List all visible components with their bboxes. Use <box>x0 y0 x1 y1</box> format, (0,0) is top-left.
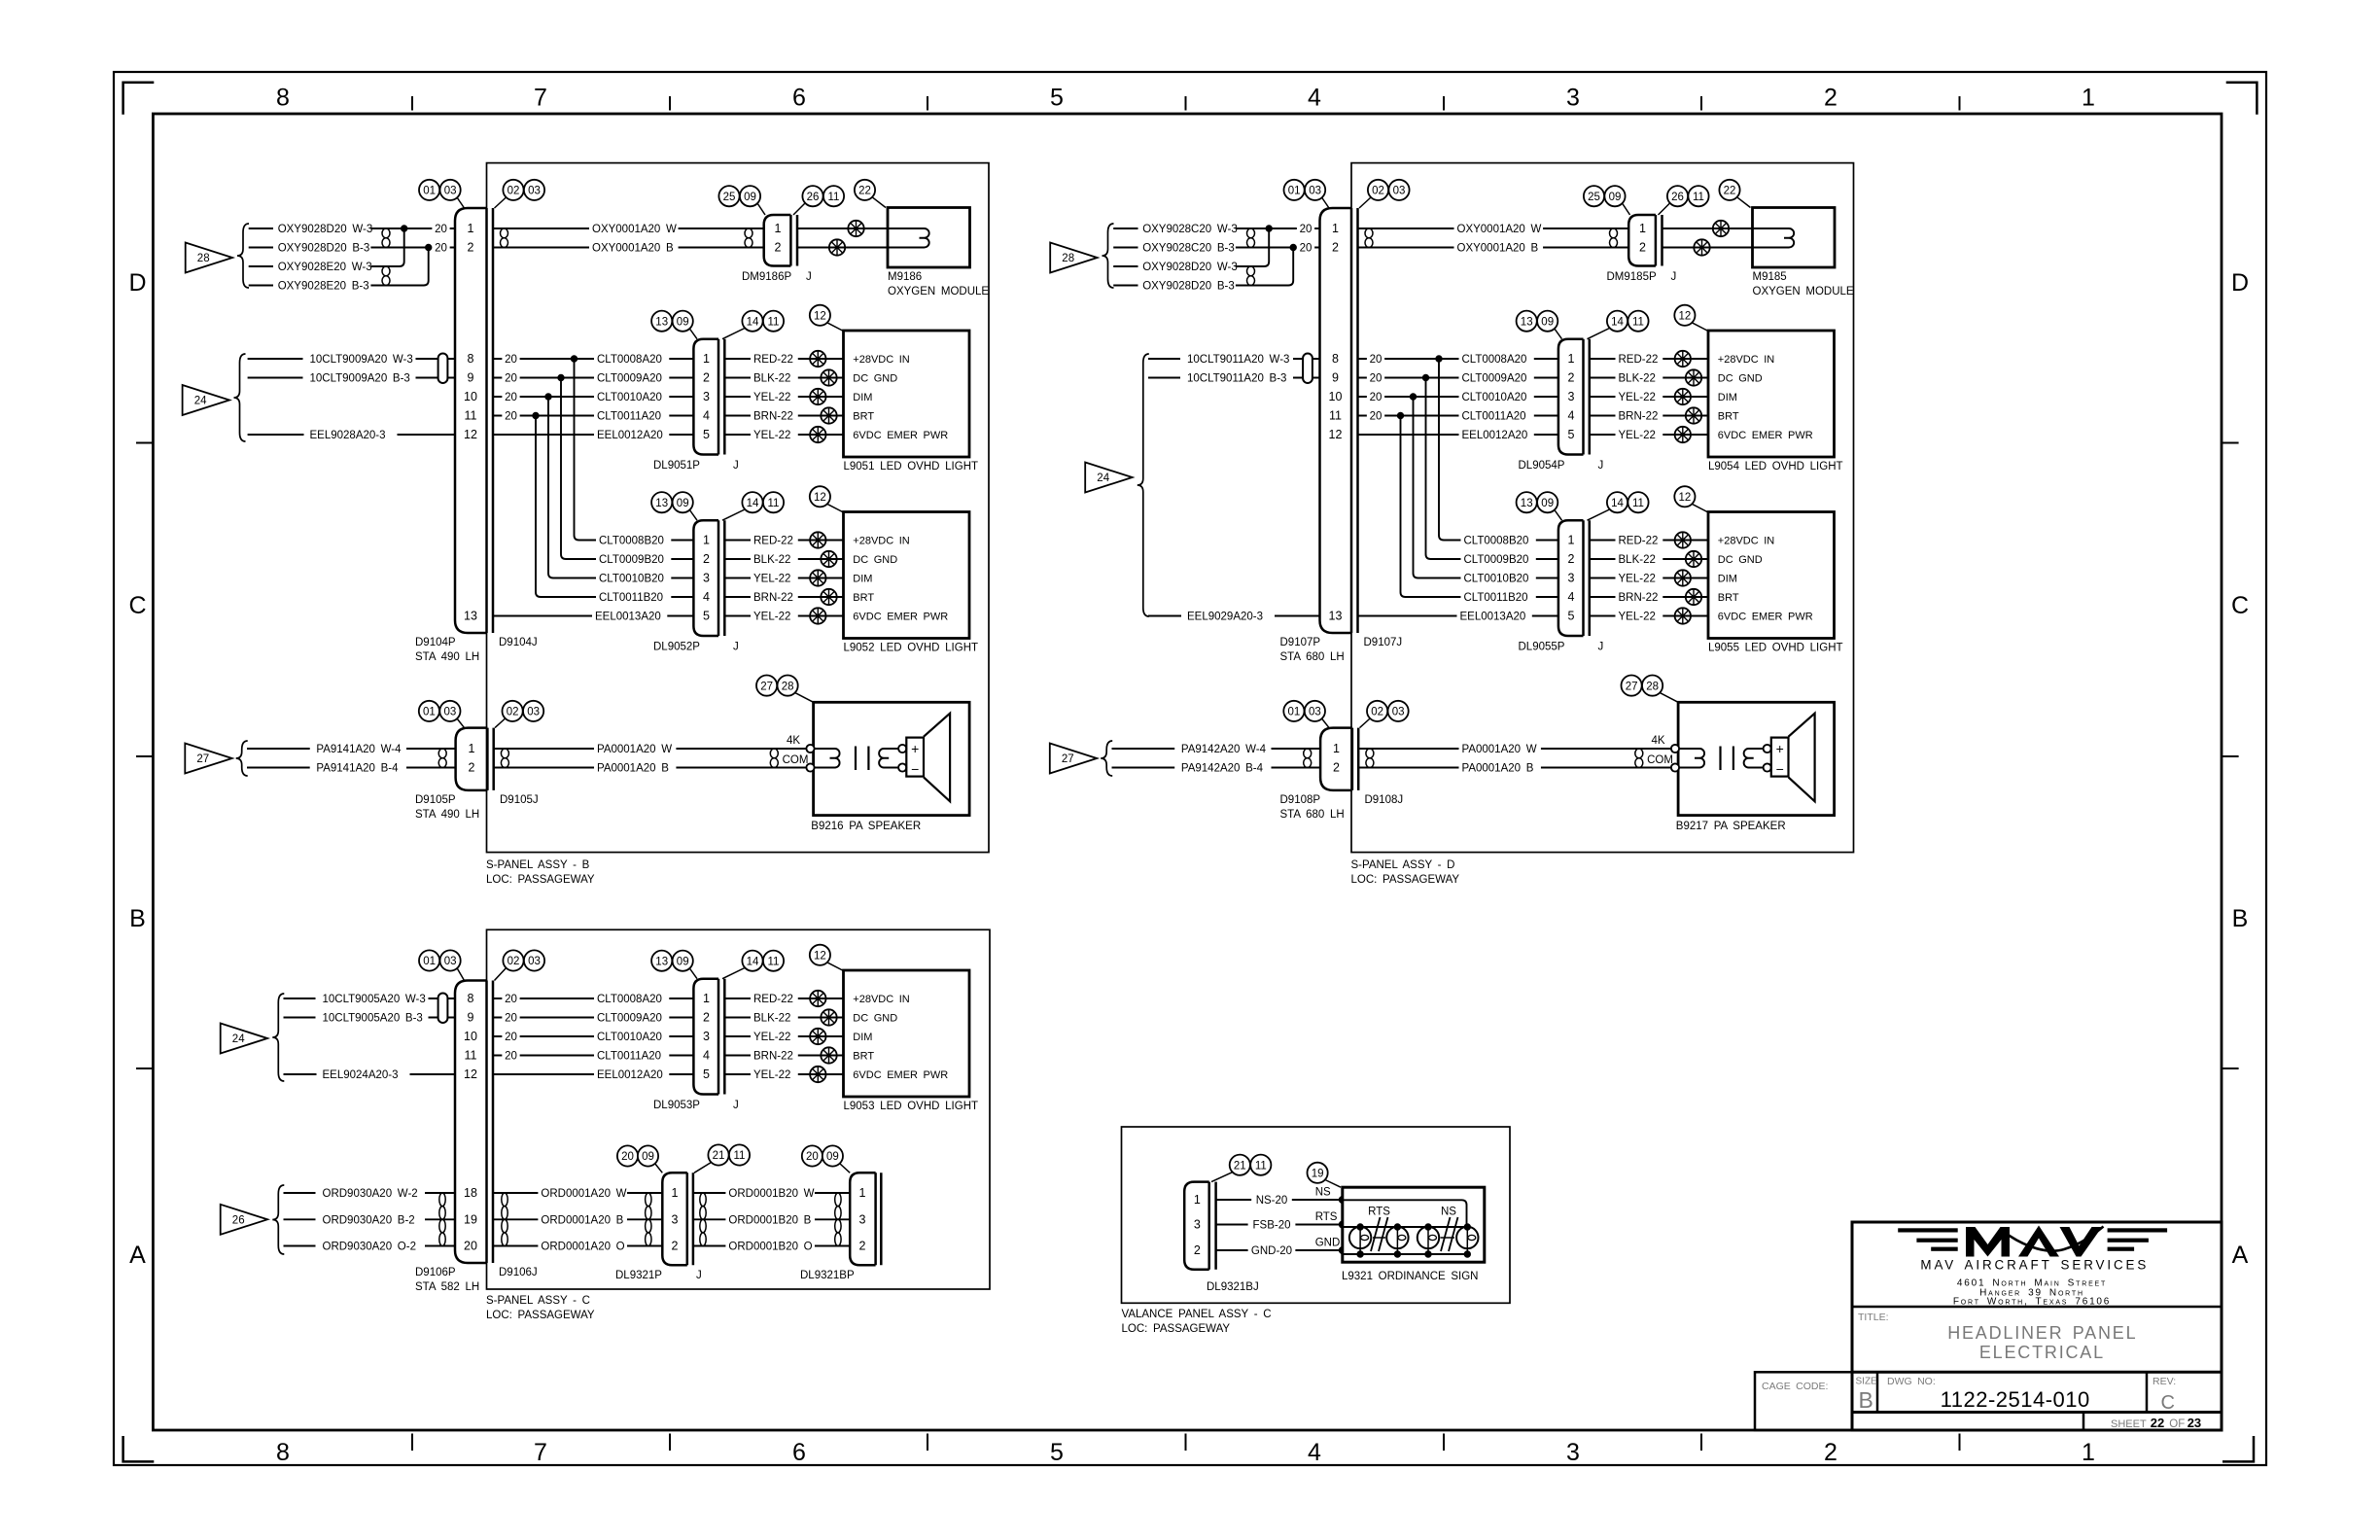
leader 12 to L9055 <box>1692 504 1708 512</box>
svg-text:D9108J: D9108J <box>1365 794 1404 806</box>
svg-text:+28VDC IN: +28VDC IN <box>853 994 909 1005</box>
svg-text:STA 582 LH: STA 582 LH <box>415 1281 479 1293</box>
svg-text:09: 09 <box>677 498 689 509</box>
svg-text:BRN-22: BRN-22 <box>1619 592 1659 604</box>
svg-text:Fort Worth, Texas 76106: Fort Worth, Texas 76106 <box>1953 1297 2111 1308</box>
connector D9105P / D9105J <box>456 728 488 790</box>
svg-text:2: 2 <box>672 1240 679 1253</box>
balloon 28 (B9216) <box>778 676 798 696</box>
lamp on BLK-22 row 2 (L9053) <box>821 1009 836 1025</box>
svg-text:VALANCE PANEL ASSY - C: VALANCE PANEL ASSY - C <box>1122 1309 1272 1320</box>
svg-text:20: 20 <box>505 994 517 1005</box>
wire YEL-22 pin 3 DL9055P to L9055 <box>1590 577 1708 579</box>
svg-text:20: 20 <box>435 243 447 255</box>
svg-text:11: 11 <box>768 316 780 328</box>
balloon 21 (DL9321BJ) <box>1230 1155 1250 1175</box>
balloon 25 (DM9185P) <box>1584 186 1604 206</box>
svg-text:5: 5 <box>1050 1439 1064 1466</box>
zone tick top 8/7 <box>411 96 413 111</box>
leader 14/11 to J of DL9055P <box>1588 509 1610 520</box>
lamp on BLK-22 row 2 (L9052) <box>821 551 836 567</box>
lamp on YEL-22 row 3 (L9053) <box>810 1029 825 1044</box>
svg-text:J: J <box>733 1100 739 1111</box>
leader 27/28 to B9216 <box>795 692 814 702</box>
svg-text:14: 14 <box>1611 498 1624 509</box>
svg-text:1: 1 <box>703 992 710 1005</box>
svg-text:ORD9030A20 B-2: ORD9030A20 B-2 <box>323 1214 415 1226</box>
svg-text:2: 2 <box>1568 552 1575 566</box>
svg-text:03: 03 <box>444 956 457 967</box>
wire ORD9030A20 W-2 <box>284 1192 316 1194</box>
svg-text:2: 2 <box>468 241 474 255</box>
leader 02/03 to D9105J <box>495 718 506 728</box>
svg-text:6VDC EMER PWR: 6VDC EMER PWR <box>1718 430 1813 441</box>
leader 13/09 to DL9055P <box>1555 509 1562 520</box>
brace flag 24 (D9104P) <box>234 354 246 441</box>
speaker horn (B9216) <box>924 714 950 802</box>
wire YEL-22 pin 5 DL9053P to L9053 <box>724 1073 843 1075</box>
balloon 01 (D9104P) <box>419 180 439 200</box>
valance panel box VALANCE PANEL ASSY - C <box>1122 1127 1511 1303</box>
junction node pin1 (D9104P) <box>402 226 407 231</box>
balloon 01 (D9105P) <box>419 701 439 721</box>
svg-text:1: 1 <box>1568 534 1575 547</box>
svg-text:+: + <box>1776 741 1784 756</box>
wire OXY9028C20 W-3 <box>1113 227 1137 229</box>
zone tick top 6/5 <box>927 96 928 111</box>
leader 25/09 to DM9186P <box>757 203 765 215</box>
svg-text:COM: COM <box>783 754 809 766</box>
speaker + terminal (B9217) <box>1764 745 1771 752</box>
balloon 22 (M9186) <box>855 180 875 200</box>
wire BLK-22 pin 2 DL9051P to L9051 <box>724 377 843 379</box>
wire OXY9028D20 W-3 <box>249 227 273 229</box>
lamp on YEL-22 row 5 (L9054) <box>1675 427 1691 442</box>
balloon 12 (L9051) <box>810 305 830 326</box>
lamp on BRN-22 row 4 (L9051) <box>821 407 836 423</box>
wire PA0001A20 W <box>1358 748 1678 750</box>
balloon 19 (L9321) <box>1308 1163 1328 1183</box>
svg-text:12: 12 <box>1329 428 1343 441</box>
corner trim mark bottom-right <box>2222 1436 2254 1461</box>
connector DM9185P <box>1628 215 1656 266</box>
svg-text:03: 03 <box>527 707 540 718</box>
wire RTS bus inside L9321 <box>1343 1226 1468 1228</box>
wire OXY9028D20 W-3 riser to pin 1 <box>1236 228 1269 266</box>
svg-text:RTS: RTS <box>1368 1207 1390 1218</box>
svg-text:YEL-22: YEL-22 <box>1619 430 1656 441</box>
svg-text:DIM: DIM <box>853 1032 872 1043</box>
svg-text:B: B <box>1859 1387 1873 1413</box>
svg-text:1: 1 <box>1568 352 1575 366</box>
svg-text:PA0001A20 W: PA0001A20 W <box>1462 744 1537 755</box>
leader 13/09 to DL9051P <box>689 329 697 339</box>
svg-text:B: B <box>129 905 146 932</box>
leader 26/11 to J of DM9185P <box>1659 203 1670 215</box>
wire PA9142A20 W-4 <box>1112 748 1175 750</box>
label COM (B9216) <box>783 752 807 766</box>
svg-text:OF: OF <box>2169 1418 2185 1430</box>
speaker input terminal + (B9217) <box>1671 745 1679 752</box>
balloon 12 (L9053) <box>810 945 830 965</box>
svg-text:09: 09 <box>826 1151 839 1163</box>
svg-text:OXYGEN MODULE: OXYGEN MODULE <box>1753 286 1854 297</box>
svg-text:1: 1 <box>1333 742 1340 755</box>
svg-text:2: 2 <box>703 371 710 385</box>
svg-text:BRT: BRT <box>853 1051 874 1063</box>
svg-text:11: 11 <box>1255 1160 1267 1172</box>
oxygen module box M9185 <box>1753 208 1836 268</box>
svg-text:6VDC EMER PWR: 6VDC EMER PWR <box>853 1069 948 1081</box>
svg-text:RED-22: RED-22 <box>1619 536 1659 547</box>
svg-text:A: A <box>2232 1242 2249 1269</box>
svg-text:26: 26 <box>1671 192 1684 203</box>
zone tick top 7/6 <box>669 96 671 111</box>
svg-text:11: 11 <box>465 1049 477 1063</box>
svg-text:BRN-22: BRN-22 <box>1619 411 1659 423</box>
svg-text:STA 680 LH: STA 680 LH <box>1280 651 1345 663</box>
junction node bottom lamp 2 <box>1394 1251 1400 1257</box>
svg-text:DC GND: DC GND <box>1718 554 1763 566</box>
balloon 01 (D9106P) <box>419 950 439 970</box>
svg-text:LOC: PASSAGEWAY: LOC: PASSAGEWAY <box>1351 874 1460 886</box>
wire gauge 20 pin 2 <box>432 240 449 254</box>
svg-text:20: 20 <box>1300 224 1312 235</box>
twisted triple symbol ORD0001A20 at DL9321P <box>646 1193 651 1207</box>
svg-text:8: 8 <box>468 352 474 366</box>
svg-text:DC GND: DC GND <box>853 1013 897 1025</box>
balloon 09 (DM9185P) <box>1604 186 1625 206</box>
lamp pair link NS <box>1441 1237 1455 1239</box>
svg-text:BLK-22: BLK-22 <box>753 554 790 566</box>
MAV logo speed lines right <box>2108 1228 2168 1232</box>
balloon 02 (D9107J) <box>1368 180 1388 200</box>
wire CLT0011A20 (D9104P J to DL) <box>493 415 693 417</box>
svg-text:EEL0012A20: EEL0012A20 <box>597 1069 663 1081</box>
svg-text:09: 09 <box>1541 498 1554 509</box>
leader 14/11 to J of DL9054P <box>1588 329 1610 339</box>
leader 12 to L9054 <box>1692 323 1708 332</box>
transformer primary coil (B9217) <box>1679 749 1704 768</box>
connector DL9051P (to L9051) <box>693 339 718 455</box>
zone tick right B/A <box>2222 1067 2239 1069</box>
leader 13/09 to DL9053P <box>689 968 697 979</box>
wire YEL-22 pin 3 DL9051P to L9051 <box>724 396 843 398</box>
wire gauge 20 pin 1 <box>1297 222 1314 235</box>
svg-text:DM9185P: DM9185P <box>1607 271 1657 283</box>
svg-text:D9107J: D9107J <box>1364 637 1403 648</box>
brace oxygen wires (D9107P) <box>1102 224 1114 288</box>
transformer primary coil (B9216) <box>815 749 840 768</box>
MAV logo letter M <box>1966 1227 2010 1257</box>
balloon 09 (L9053) <box>673 951 693 971</box>
wire DM9186P pin1 to M9186 <box>797 227 888 229</box>
wire OXY9028D20 B-3 <box>1113 285 1137 287</box>
transformer core (B9216) <box>855 747 857 771</box>
svg-text:EEL0012A20: EEL0012A20 <box>597 430 663 441</box>
svg-text:CAGE CODE:: CAGE CODE: <box>1762 1381 1828 1392</box>
wire PA0001A20 B <box>1358 767 1678 769</box>
wire EEL0012A20 (D9107P J to DL) <box>1358 434 1558 436</box>
speaker input terminal - (B9217) <box>1671 763 1679 771</box>
svg-text:2: 2 <box>1332 241 1339 255</box>
svg-text:OXY9028E20 W-3: OXY9028E20 W-3 <box>278 262 372 273</box>
svg-text:EEL0013A20: EEL0013A20 <box>595 612 661 623</box>
svg-text:2: 2 <box>1639 241 1646 255</box>
connector DL9321BJ <box>1184 1182 1209 1270</box>
svg-text:2: 2 <box>703 1011 710 1025</box>
svg-text:11: 11 <box>734 1150 746 1162</box>
junction node CLT0008A20 <box>1436 356 1442 362</box>
svg-text:+28VDC IN: +28VDC IN <box>1718 354 1774 366</box>
svg-text:L9053 LED OVHD LIGHT: L9053 LED OVHD LIGHT <box>844 1101 979 1112</box>
svg-text:03: 03 <box>528 956 541 967</box>
svg-text:CLT0010A20: CLT0010A20 <box>597 1032 662 1043</box>
cage code box <box>1755 1372 1852 1430</box>
svg-text:12: 12 <box>814 311 826 323</box>
wire OXY0001A20 B <box>1358 247 1629 249</box>
terminal RTS of L9321 <box>1339 1221 1343 1228</box>
LED light box L9053 <box>844 970 970 1097</box>
wire riser CLT0009A20 to B-light <box>1426 378 1431 560</box>
svg-text:B: B <box>2232 905 2249 932</box>
wire BLK-22 pin 2 DL9055P to L9055 <box>1590 558 1708 560</box>
wire OXY9028C20 W-3 to pin 1 <box>1236 227 1320 229</box>
wire PA9142A20 B-4 <box>1112 767 1175 769</box>
wire EEL0013A20 from pin 13 <box>493 615 693 617</box>
svg-text:6VDC EMER PWR: 6VDC EMER PWR <box>853 612 948 623</box>
balloon 27 (B9216) <box>756 676 777 696</box>
junction node pin2 (D9104P) <box>426 244 432 250</box>
svg-text:CLT0010A20: CLT0010A20 <box>1462 392 1527 403</box>
wire BRN-22 pin 4 DL9051P to L9051 <box>724 415 843 417</box>
svg-text:25: 25 <box>1588 192 1600 203</box>
connector D9104P / D9104J <box>455 208 487 633</box>
svg-text:3: 3 <box>1566 85 1580 112</box>
balloon 25 (DM9186P) <box>718 186 739 206</box>
svg-text:02: 02 <box>507 186 520 197</box>
svg-text:24: 24 <box>194 396 207 407</box>
svg-text:20: 20 <box>1370 373 1382 385</box>
svg-text:OXY9028D20 B-3: OXY9028D20 B-3 <box>278 243 370 255</box>
title block line below dwg row <box>1852 1411 2222 1414</box>
twisted pair symbol PA0001A20 at B9216 <box>770 749 778 758</box>
svg-text:10: 10 <box>464 1030 477 1043</box>
svg-text:BRT: BRT <box>1718 411 1739 423</box>
zone tick bottom 6/5 <box>927 1434 928 1452</box>
svg-text:YEL-22: YEL-22 <box>1619 392 1656 403</box>
wire 10CLT9011A20 W-3 <box>1148 358 1180 360</box>
svg-text:LOC: PASSAGEWAY: LOC: PASSAGEWAY <box>486 874 595 886</box>
svg-text:4: 4 <box>1568 590 1575 604</box>
svg-text:02: 02 <box>1372 186 1384 197</box>
wire BRN-22 pin 4 DL9052P to L9052 <box>724 596 843 598</box>
wire PA9141A20 W-4 <box>247 748 310 750</box>
svg-text:4K: 4K <box>1651 735 1664 747</box>
leader 02/03 to D9107J <box>1359 197 1371 208</box>
svg-text:22: 22 <box>858 186 871 197</box>
shield staple symbol 10CLT9009A20 W-3/10CLT9009A20 B-3 <box>438 354 448 384</box>
svg-text:1: 1 <box>775 222 782 235</box>
twisted pair symbol OXY0001A20 at DM9185P <box>1610 228 1618 238</box>
leader 01/03 to D9105P <box>457 718 465 728</box>
svg-text:02: 02 <box>1371 707 1383 718</box>
leader 13/09 to DL9052P <box>689 509 697 520</box>
leader 21/11 to J of DL9321P <box>694 1163 712 1173</box>
balloon 11 (DL9321BJ) <box>1250 1155 1271 1175</box>
svg-text:DL9053P: DL9053P <box>653 1100 700 1111</box>
balloon 14 (L9051) <box>742 311 762 332</box>
svg-text:D9106P: D9106P <box>415 1267 456 1278</box>
svg-text:10CLT9005A20 B-3: 10CLT9005A20 B-3 <box>323 1013 423 1025</box>
svg-text:09: 09 <box>677 956 689 967</box>
svg-text:YEL-22: YEL-22 <box>753 1032 790 1043</box>
lamp on BRN-22 row 4 (L9053) <box>821 1047 836 1063</box>
junction node CLT0008A20 <box>571 356 577 362</box>
svg-text:NS: NS <box>1315 1187 1331 1199</box>
wire CLT0008A20 (D9104P J to DL) <box>493 358 693 360</box>
svg-text:14: 14 <box>747 498 759 509</box>
wire 10CLT9011A20 B-3 <box>1148 377 1180 379</box>
junction node CLT0011A20 <box>533 412 539 418</box>
wire CLT0010A20 (D9107P J to DL) <box>1358 396 1558 398</box>
svg-text:J: J <box>806 271 812 283</box>
wire 10CLT9009A20 B-3 <box>248 377 303 379</box>
junction node CLT0009A20 <box>558 374 564 380</box>
svg-text:D9104P: D9104P <box>415 637 456 648</box>
corner trim mark top-right <box>2226 83 2257 115</box>
svg-text:1: 1 <box>2082 85 2095 112</box>
svg-text:20: 20 <box>505 354 517 366</box>
lamp on RED-22 row 1 (L9051) <box>810 351 825 367</box>
leader 25/09 to DM9185P <box>1623 203 1630 215</box>
svg-text:D9105P: D9105P <box>415 794 456 806</box>
svg-text:CLT0010B20: CLT0010B20 <box>599 574 664 585</box>
svg-text:25: 25 <box>723 192 736 203</box>
wire riser CLT0010A20 to B-light <box>1414 397 1418 578</box>
svg-text:L9055 LED OVHD LIGHT: L9055 LED OVHD LIGHT <box>1708 643 1843 654</box>
svg-text:L9054 LED OVHD LIGHT: L9054 LED OVHD LIGHT <box>1708 461 1843 472</box>
svg-text:CLT0011B20: CLT0011B20 <box>599 592 663 604</box>
leader 26/11 to J of DM9186P <box>793 203 805 215</box>
svg-text:PA9142A20 W-4: PA9142A20 W-4 <box>1181 744 1267 755</box>
svg-text:1: 1 <box>1194 1193 1201 1207</box>
connector D9106P / D9106J <box>455 981 487 1264</box>
svg-text:28: 28 <box>1062 253 1074 264</box>
svg-text:10CLT9011A20 B-3: 10CLT9011A20 B-3 <box>1187 373 1286 385</box>
junction node top lamp 1 <box>1357 1224 1363 1230</box>
balloon 14 (L9053) <box>742 951 762 971</box>
svg-text:13: 13 <box>655 956 668 967</box>
svg-text:7: 7 <box>534 1439 547 1466</box>
svg-text:11: 11 <box>828 192 840 203</box>
lamp on BRN-22 row 4 (L9052) <box>821 589 836 605</box>
svg-text:DL9054P: DL9054P <box>1519 460 1565 472</box>
svg-text:CLT0009A20: CLT0009A20 <box>597 373 662 385</box>
svg-text:DL9321P: DL9321P <box>615 1270 662 1281</box>
wire GND-20 <box>1216 1249 1343 1251</box>
svg-text:CLT0010B20: CLT0010B20 <box>1464 574 1529 585</box>
brace flag 24 (D9107P) <box>1137 354 1149 616</box>
svg-text:1: 1 <box>468 222 474 235</box>
transformer secondary coil (B9216) <box>879 749 898 768</box>
junction node CLT0011A20 <box>1397 412 1403 418</box>
zone tick right C/B <box>2222 755 2239 757</box>
speaker - terminal (B9216) <box>898 763 906 771</box>
svg-text:BRT: BRT <box>853 592 874 604</box>
speaker + terminal (B9216) <box>898 745 906 752</box>
wire EEL9029A20-3 <box>1148 615 1181 617</box>
svg-text:13: 13 <box>1329 610 1343 623</box>
leader 02/03 to D9106J <box>495 968 507 981</box>
svg-text:NS-20: NS-20 <box>1256 1195 1288 1207</box>
svg-text:L9321 ORDINANCE SIGN: L9321 ORDINANCE SIGN <box>1342 1271 1479 1282</box>
wire CLT0010B20 <box>1418 577 1558 579</box>
balloon 09 (L9054) <box>1537 311 1557 332</box>
leader 01/03 to D9108P <box>1322 718 1330 728</box>
svg-text:DIM: DIM <box>1718 574 1737 585</box>
svg-text:M9185: M9185 <box>1753 271 1787 283</box>
svg-text:J: J <box>1598 642 1604 653</box>
svg-text:OXY9028D20 W-3: OXY9028D20 W-3 <box>278 224 373 235</box>
svg-text:23: 23 <box>2187 1416 2201 1430</box>
svg-text:BLK-22: BLK-22 <box>1619 373 1656 385</box>
junction node bottom lamp 3 <box>1425 1251 1431 1257</box>
lamp on YEL-22 row 3 (L9052) <box>810 570 825 585</box>
lamp on BRN-22 row 4 (L9055) <box>1686 589 1701 605</box>
svg-text:3: 3 <box>1568 572 1575 585</box>
svg-text:CLT0008A20: CLT0008A20 <box>597 994 662 1005</box>
wire RED-22 pin 1 DL9051P to L9051 <box>724 358 843 360</box>
svg-text:12: 12 <box>464 428 477 441</box>
svg-text:6VDC EMER PWR: 6VDC EMER PWR <box>1718 612 1813 623</box>
svg-text:BLK-22: BLK-22 <box>753 1013 790 1025</box>
wire gauge 20 pin 2 <box>1297 240 1314 254</box>
lamp on YEL-22 row 5 (L9053) <box>810 1067 825 1082</box>
wire OXY0001A20 W <box>1358 227 1629 229</box>
svg-text:EEL9024A20-3: EEL9024A20-3 <box>323 1069 399 1081</box>
svg-text:1122-2514-010: 1122-2514-010 <box>1941 1387 2090 1412</box>
balloon 03b (D9106J) <box>524 950 544 970</box>
balloon 09 (L9051) <box>673 311 693 332</box>
svg-text:CLT0009A20: CLT0009A20 <box>597 1013 662 1025</box>
sign lamp 1 (L9321) <box>1349 1227 1371 1248</box>
wire ORD0001A20 O <box>493 1245 662 1247</box>
svg-text:LOC: PASSAGEWAY: LOC: PASSAGEWAY <box>486 1310 595 1321</box>
svg-text:S-PANEL ASSY - D: S-PANEL ASSY - D <box>1351 859 1455 871</box>
svg-text:3: 3 <box>859 1213 866 1227</box>
svg-text:PA9141A20 B-4: PA9141A20 B-4 <box>316 763 399 775</box>
svg-text:1: 1 <box>703 352 710 366</box>
svg-text:20: 20 <box>1300 243 1312 255</box>
balloon 14 (L9052) <box>742 492 762 512</box>
wire BRN-22 pin 4 DL9053P to L9053 <box>724 1055 843 1057</box>
wire BRN-22 pin 4 DL9055P to L9055 <box>1590 596 1708 598</box>
twisted pair symbol OXY9028D20 W-3/OXY9028D20 B-3 <box>1247 266 1255 276</box>
balloon 13 (L9054) <box>1517 311 1537 332</box>
brace flag 26 (D9106P) <box>272 1185 284 1254</box>
svg-text:4K: 4K <box>787 735 800 747</box>
wire EEL0013A20 from pin 13 <box>1358 615 1558 617</box>
svg-text:DC GND: DC GND <box>1718 373 1763 385</box>
svg-text:RED-22: RED-22 <box>753 994 793 1005</box>
leader 12 to L9052 <box>827 504 844 512</box>
svg-text:10CLT9011A20 W-3: 10CLT9011A20 W-3 <box>1187 354 1289 366</box>
balloon 20 (DL9321BP) <box>802 1145 822 1166</box>
svg-text:DC GND: DC GND <box>853 373 897 385</box>
balloon 03b (D9105J) <box>523 701 543 721</box>
svg-text:22: 22 <box>2151 1416 2164 1430</box>
